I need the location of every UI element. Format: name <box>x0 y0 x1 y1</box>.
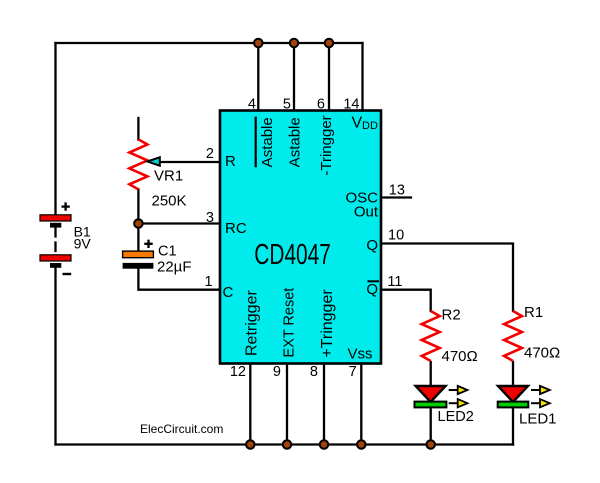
svg-text:8: 8 <box>310 364 318 380</box>
svg-text:5: 5 <box>283 97 291 113</box>
svg-text:9: 9 <box>273 364 281 380</box>
svg-text:LED2: LED2 <box>438 409 474 425</box>
svg-text:-Tringger: -Tringger <box>318 115 335 175</box>
svg-text:Retrigger: Retrigger <box>244 290 261 356</box>
svg-text:DD: DD <box>362 120 378 132</box>
svg-text:C1: C1 <box>158 244 177 260</box>
svg-text:VR1: VR1 <box>154 168 183 185</box>
svg-text:LED1: LED1 <box>519 411 557 428</box>
svg-text:Astable: Astable <box>259 117 276 167</box>
svg-text:13: 13 <box>389 183 405 199</box>
svg-text:4: 4 <box>248 97 256 113</box>
svg-text:Vss: Vss <box>347 346 372 363</box>
svg-text:+Tringger: +Tringger <box>319 289 336 358</box>
svg-text:7: 7 <box>349 364 357 380</box>
svg-text:R: R <box>225 153 236 170</box>
svg-text:Q: Q <box>366 237 378 254</box>
svg-text:11: 11 <box>387 274 402 290</box>
svg-text:1: 1 <box>205 274 213 290</box>
svg-text:RC: RC <box>225 220 247 237</box>
svg-text:EXT Reset: EXT Reset <box>282 288 298 358</box>
svg-text:R2: R2 <box>442 307 461 324</box>
svg-text:Astable: Astable <box>287 117 304 167</box>
svg-text:22µF: 22µF <box>157 259 192 276</box>
svg-text:V: V <box>352 115 363 132</box>
svg-text:CD4047: CD4047 <box>254 239 331 271</box>
svg-text:12: 12 <box>230 364 246 380</box>
svg-text:10: 10 <box>388 228 404 244</box>
svg-text:470Ω: 470Ω <box>524 345 560 362</box>
svg-text:Q: Q <box>366 281 378 298</box>
svg-text:250K: 250K <box>152 193 187 210</box>
svg-text:2: 2 <box>206 146 214 162</box>
svg-text:ElecCircuit.com: ElecCircuit.com <box>140 422 223 436</box>
svg-text:6: 6 <box>317 97 325 113</box>
svg-text:14: 14 <box>343 97 359 113</box>
svg-text:9V: 9V <box>74 236 92 252</box>
svg-text:3: 3 <box>206 210 214 226</box>
svg-text:C: C <box>223 284 234 301</box>
svg-text:470Ω: 470Ω <box>442 348 478 365</box>
svg-text:R1: R1 <box>524 304 543 321</box>
svg-text:Out: Out <box>354 203 379 220</box>
